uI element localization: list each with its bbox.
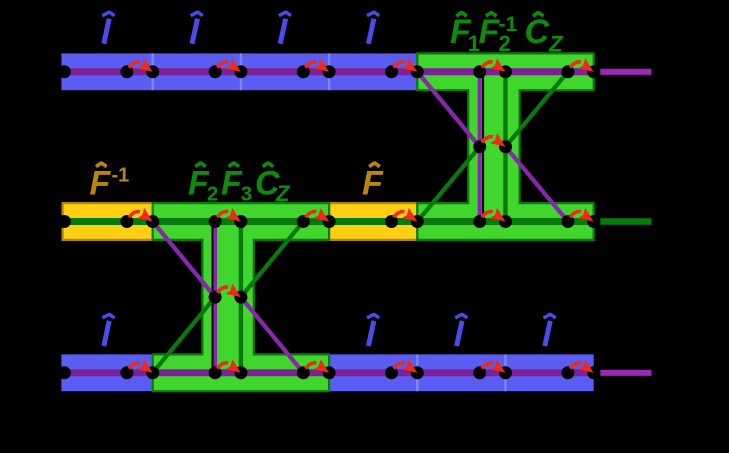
wire H2 chord dark green in [417,147,479,222]
label Ihat top 4 [367,12,379,44]
wire H2 chord dark green out [506,72,568,147]
wire H1 chord purple out [241,297,303,373]
node mid a2 [209,215,222,228]
arrow top 6 [570,58,593,72]
node top b2 [234,65,247,78]
wire H2 vertical purple [478,72,482,222]
wire H1 vertical black companion [212,227,214,368]
arrow mid 4 [394,208,417,222]
segment separator [416,354,418,391]
svg-text:-1: -1 [499,13,518,36]
wire H2 chord purple in [417,72,479,147]
node H2 center right [499,140,512,153]
wire bottom rail extension [600,370,651,376]
node top a5 [473,65,486,78]
node bot b6 [587,366,600,379]
node bot b3 [323,366,336,379]
node mid a4 [385,215,398,228]
wire H2 chord purple out [506,147,568,222]
segment separator [151,53,153,90]
arrow bot 2 [217,359,240,373]
wire H1 chord purple in [153,222,215,298]
svg-text:-1: -1 [112,165,130,187]
wire H1 chord dark green in [153,297,215,373]
arrow bot 6 [570,359,593,373]
node bot a4 [385,366,398,379]
node mid b2 [234,215,247,228]
label Fhat^-1 [90,163,130,203]
arrow top 4 [394,58,417,72]
wire middle rail extension [600,218,651,225]
label Fhat [362,163,384,203]
arrow bot 3 [306,359,329,373]
label Ihat bottom 1 [102,314,114,346]
gate block F^-1 (yellow) middle rail [63,203,153,240]
wire middle rail (dark green) [63,218,594,225]
svg-text:Z: Z [548,31,564,56]
label Ihat top 1 [102,12,114,44]
gate block F (yellow) middle rail [329,203,417,240]
node mid b4 [411,215,424,228]
svg-text:2: 2 [207,183,218,206]
gate block I bottom-left (blue) [61,354,152,391]
svg-text:F: F [479,13,501,51]
wire bottom rail (purple) [63,369,594,376]
arrow bot 4 [394,359,417,373]
node bot a1 [120,366,133,379]
arrow mid 2 [217,208,240,222]
arrow top 2 [217,58,240,72]
node top a4 [385,65,398,78]
node mid b1 [146,215,159,228]
arrow top 5 [482,58,505,72]
node bot a6 [561,366,574,379]
arrow mid 3 [306,208,329,222]
svg-text:F: F [221,165,243,203]
node top b1 [146,65,159,78]
node bot a3 [297,366,310,379]
node mid b5 [499,215,512,228]
node bot b4 [411,366,424,379]
gate block I⊗3 bottom-right (blue) [329,354,594,391]
wire H2 vertical black companion [482,77,484,217]
gate block U_I top rail (blue, 4 segments) [61,53,417,90]
wire top rail (purple) [63,68,594,75]
wire H1 vertical dark green [239,222,243,373]
node bot b5 [499,366,512,379]
label Ihat bottom 4 [543,314,555,346]
node bot a5 [473,366,486,379]
node top a6 [561,65,574,78]
node top b5 [499,65,512,78]
node top b6 [587,65,600,78]
gate H-block F2F3CZ (green, middle-bottom) [153,203,329,391]
node bot b2 [234,366,247,379]
node bot b1 [146,366,159,379]
segment separator [240,53,242,90]
node mid a1 [120,215,133,228]
arrow top 1 [129,58,152,72]
label Fhat2 Fhat3 Chat_Z [188,163,291,206]
label Fhat1 Fhat2^-1 Chat_Z [450,12,564,56]
svg-text:F: F [90,165,112,203]
arrow H2 center [482,133,505,147]
arrow top 3 [306,58,329,72]
label Ihat top 2 [191,12,203,44]
arrow H1 center [217,284,240,298]
node mid a3 [297,215,310,228]
node top a1 [120,65,133,78]
node top a3 [297,65,310,78]
segment separator [328,53,330,90]
label Ihat bottom 3 [455,314,467,346]
node H2 center left [473,140,486,153]
node mid b0 [58,215,71,228]
node bot a2 [209,366,222,379]
node top b3 [323,65,336,78]
arrow bot 5 [482,359,505,373]
node mid a5 [473,215,486,228]
wire H1 chord dark green out [241,222,303,298]
arrow bot 1 [129,359,152,373]
node H1 center left [209,291,222,304]
node mid b3 [323,215,336,228]
svg-text:Z: Z [275,181,291,206]
node bot b0 [58,366,71,379]
node top b4 [411,65,424,78]
node mid b6 [587,215,600,228]
arrow mid 1 [129,208,152,222]
svg-text:C: C [525,13,550,51]
label Ihat top 3 [279,12,291,44]
arrow mid 6 [570,208,593,222]
node mid a6 [561,215,574,228]
node top b0 [58,65,71,78]
gate H-block F1F2^-1CZ (green, top-middle) [417,53,593,240]
label Ihat bottom 2 [367,314,379,346]
svg-text:F: F [362,165,384,203]
svg-text:3: 3 [241,183,252,206]
wire H2 vertical dark green [503,72,507,222]
segment separator [504,354,506,391]
wire H1 vertical purple [213,222,217,373]
node H1 center right [234,291,247,304]
wire top rail extension [600,69,651,75]
node top a2 [209,65,222,78]
arrow mid 5 [482,208,505,222]
